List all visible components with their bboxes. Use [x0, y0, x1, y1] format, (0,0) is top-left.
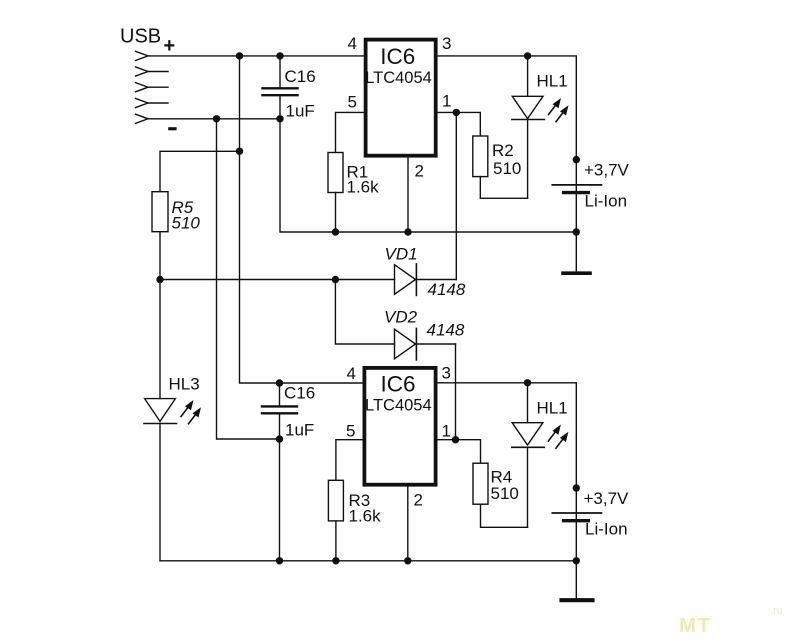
svg-text:IC6: IC6 [380, 44, 415, 69]
svg-text:4148: 4148 [428, 280, 466, 299]
node junction pin1/VD1 [453, 109, 460, 116]
svg-text:2: 2 [414, 491, 423, 510]
svg-text:+3,7V: +3,7V [584, 489, 630, 508]
wire USB- (y=118.8) [148, 118, 280, 120]
svg-text:3: 3 [442, 364, 451, 383]
resistor R3 [328, 480, 343, 521]
svg-text:1: 1 [442, 422, 451, 441]
led HL1 (top) [512, 56, 545, 198]
svg-text:HL3: HL3 [169, 375, 200, 394]
svg-text:1.6k: 1.6k [349, 507, 382, 526]
svg-text:LTC4054: LTC4054 [365, 397, 432, 415]
wire IC6b pin2 down [407, 485, 409, 561]
HL1 arrows [549, 98, 569, 122]
node junction R3/bus [332, 557, 339, 564]
wire VD anode bus (y=279.5) [160, 279, 395, 281]
svg-text:C16: C16 [284, 384, 315, 403]
capacitor C16 (bottom) [262, 383, 297, 439]
svg-text:4: 4 [347, 364, 356, 383]
diode VD1 [395, 264, 457, 296]
resistor R1 [328, 153, 343, 193]
svg-text:HL1: HL1 [537, 399, 568, 418]
node junction C16a bottom [276, 115, 283, 122]
node junction pin2b/bus [404, 557, 411, 564]
wire R2 bottom to HL1 cathode [480, 177, 527, 199]
svg-text:C16: C16 [285, 67, 316, 86]
svg-text:510: 510 [491, 484, 519, 503]
wire IC6a pin1 to R2 [438, 112, 481, 136]
node junction C16b/bus [276, 557, 283, 564]
wire R3 bottom [335, 521, 337, 561]
op IC6a box LTC4054 [366, 40, 436, 156]
wire IC6b pin1 to R4 [436, 440, 481, 464]
wire R1 bottom to GND bus [335, 193, 337, 233]
wire IC6b pin3 to battery2 [436, 383, 577, 598]
wire bottom GND bus (y=560.8) [160, 560, 576, 562]
battery GB1 +3.7V Li-Ion [552, 185, 601, 193]
wire R5 top connection [160, 151, 240, 191]
node junction battery1 - / GND bus [573, 228, 580, 235]
svg-text:2: 2 [415, 162, 424, 181]
diode VD2 [395, 328, 456, 360]
node junction HL1b top [524, 379, 531, 386]
wire VD2 cathode down to IC6b pin1 [455, 344, 457, 440]
svg-text:VD1: VD1 [385, 245, 418, 264]
HL1b arrows [548, 425, 568, 449]
wire IC6a pin2 to GND bus [407, 158, 409, 233]
resistor R5 [152, 192, 168, 232]
svg-text:+: + [164, 35, 176, 57]
wire IC6b pin5 to R3 [336, 440, 363, 481]
svg-text:.ru: .ru [770, 605, 783, 617]
wire IC6a pin3 (y=56) to battery [438, 56, 577, 272]
svg-text:Li-Ion: Li-Ion [585, 192, 628, 211]
battery GB2 +3.7V Li-Ion [552, 513, 601, 521]
node junction VD2 branch [332, 276, 339, 283]
svg-text:IC6: IC6 [381, 372, 416, 397]
wire pin4 IC6b [280, 382, 363, 384]
svg-text:VD2: VD2 [384, 308, 418, 327]
svg-text:4148: 4148 [427, 321, 465, 340]
USB connector X1 [136, 51, 169, 123]
wire R5 bottom [159, 232, 161, 280]
svg-text:5: 5 [346, 422, 355, 441]
node junction +5V rail at x=239.5 [236, 52, 243, 59]
led HL1 (bottom) [512, 383, 545, 528]
svg-text:510: 510 [493, 159, 521, 178]
node junction battery2 - / bottom GND bus [573, 557, 580, 564]
led HL3 [144, 280, 176, 561]
svg-text:USB: USB [120, 26, 161, 48]
node junction C16b bottom [276, 435, 283, 442]
node junction R5 top on +5V rail [236, 148, 243, 155]
node junction battery1 + [573, 156, 580, 163]
node junction C16b top [276, 379, 283, 386]
node junction HL1 top [524, 52, 531, 59]
svg-text:Li-Ion: Li-Ion [585, 520, 628, 539]
svg-text:1.6k: 1.6k [347, 178, 380, 197]
wire USB- rail down to bottom GND node (x=216.5) [217, 119, 280, 439]
node junction C16a top [276, 52, 283, 59]
capacitor C16 (top) [263, 56, 298, 119]
wire USB+ to IC6a pin4 (net +5V, y=56) [148, 55, 364, 57]
node junction pin2/GND [404, 228, 411, 235]
node junction R5 / HL3 / VD anode wire [156, 276, 163, 283]
resistor R4 [473, 463, 488, 504]
svg-text:R2: R2 [492, 141, 514, 160]
resistor R2 [473, 136, 488, 177]
svg-text:МТ: МТ [679, 614, 712, 637]
wire R4 bottom to HL1b cathode [481, 504, 528, 527]
svg-text:LTC4054: LTC4054 [365, 69, 432, 87]
svg-text:1uF: 1uF [285, 421, 314, 440]
ground symbol (top) [563, 271, 590, 275]
wire C16a bottom down to GND bus (x=280) [280, 119, 576, 232]
op IC6b box LTC4054 [364, 368, 435, 485]
node junction GND rail at x=216.5 [213, 115, 220, 122]
svg-text:+3,7V: +3,7V [584, 161, 630, 180]
svg-text:3: 3 [442, 34, 451, 53]
HL3 arrows [181, 400, 201, 424]
svg-text:4: 4 [348, 34, 357, 53]
svg-text:5: 5 [348, 93, 357, 112]
node junction battery2 + [573, 484, 580, 491]
wire VD1 cathode up to IC6a pin1 [455, 112, 457, 279]
svg-text:510: 510 [172, 214, 201, 233]
node junction R1/GND [332, 228, 339, 235]
wire C16b bottom to bottom GND bus [279, 439, 281, 561]
wire IC6a pin5 to R1 [336, 112, 364, 152]
svg-text:1uF: 1uF [286, 102, 315, 121]
wire branch down to VD2 anode [335, 280, 394, 345]
svg-text:HL1: HL1 [537, 72, 568, 91]
ground symbol (bottom) [562, 598, 593, 602]
svg-text:1: 1 [442, 92, 451, 111]
node junction pin1/VD2 [452, 436, 459, 443]
wire +5V rail down to IC6b pin4 (x=239.5) [240, 56, 280, 383]
minus terminal label [168, 127, 176, 130]
